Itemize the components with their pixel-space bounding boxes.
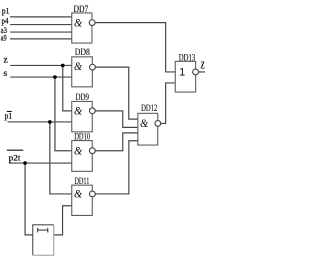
and-gate DD11 box (72, 185, 93, 215)
svg-text:DD10: DD10 (74, 131, 90, 141)
svg-text:p1: p1 (5, 111, 13, 121)
and-gate DD9 box (72, 101, 93, 131)
inverter bubble DD11 (89, 191, 95, 197)
svg-text:DD13: DD13 (179, 53, 196, 63)
wire s branch to DD10 input 1 (55, 77, 72, 151)
junction p2tbar (23, 161, 27, 165)
svg-text:&: & (74, 103, 83, 117)
overline p2tbar (7, 149, 23, 151)
and-gate DD12 box (138, 113, 158, 145)
svg-text:DD12: DD12 (141, 103, 157, 113)
wire DD9 output to DD12 input 2 (95, 111, 138, 128)
wire p4 input (10, 24, 72, 26)
wire delay output to DD11 input 2 (54, 206, 72, 235)
wire z input (10, 64, 72, 66)
svg-text:s: s (4, 69, 8, 79)
svg-text:p4: p4 (2, 15, 9, 25)
wire a3 input (10, 31, 72, 33)
inverter bubble DD9 (89, 108, 95, 114)
svg-text:p2t: p2t (9, 153, 21, 163)
svg-text:DD9: DD9 (76, 92, 90, 102)
and-gate DD7 box (72, 13, 92, 43)
svg-text:DD7: DD7 (74, 4, 89, 14)
svg-text:&: & (74, 143, 83, 157)
wire p1 input (10, 16, 72, 18)
svg-text:&: & (74, 59, 83, 73)
inverter bubble DD7 (89, 20, 95, 26)
wire p1bar input to DD9 input 2 (8, 121, 72, 123)
delay element box (33, 225, 54, 255)
wire DD8 output to DD12 input 1 (95, 67, 137, 119)
svg-text:1: 1 (179, 66, 185, 78)
overline p1bar (7, 110, 12, 112)
inverter bubble DD12 (155, 121, 161, 127)
junction p1bar (48, 120, 52, 124)
delay symbol (bar with end ticks) (38, 228, 48, 233)
svg-text:&: & (74, 16, 83, 30)
svg-text:z: z (4, 55, 8, 65)
inverter bubble DD13 (193, 69, 199, 75)
wire DD11 output to DD12 input 4 (95, 141, 138, 194)
wire s input (10, 76, 72, 78)
svg-text:DD11: DD11 (74, 176, 89, 186)
wire p1bar branch to DD11 input 1 (50, 122, 72, 194)
wire Z output (199, 71, 206, 73)
wire DD12 output to DD13 input 2 (161, 83, 176, 124)
junction z (61, 64, 65, 68)
wire z branch to DD9 input 1 (63, 65, 72, 110)
svg-text:&: & (74, 187, 83, 201)
and-gate DD10 box (72, 141, 93, 172)
and-gate DD8 box (72, 57, 93, 87)
inverter bubble DD10 (89, 148, 95, 154)
or-gate DD13 box (175, 61, 195, 92)
inverter bubble DD8 (90, 64, 96, 70)
svg-text:a9: a9 (1, 32, 7, 42)
wire DD7 output to DD13 input 1 (95, 23, 175, 72)
junction s (53, 75, 57, 79)
svg-text:p1: p1 (2, 6, 10, 16)
wire DD10 output to DD12 input 3 (95, 133, 138, 151)
wire p2tbar branch down to delay element input (25, 163, 33, 235)
wire a9 input (10, 38, 72, 40)
svg-text:Z: Z (201, 60, 206, 71)
wire p2tbar input to DD10 input 2 (9, 162, 72, 164)
svg-text:DD8: DD8 (75, 47, 91, 57)
svg-text:&: & (140, 116, 149, 130)
